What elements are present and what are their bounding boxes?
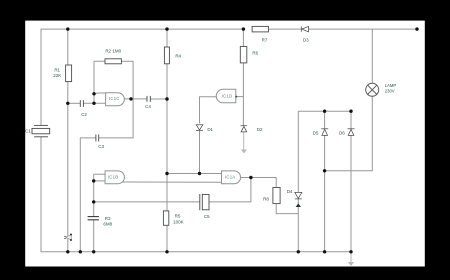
wire IC1A output to R8 xyxy=(241,178,277,188)
svg-text:C2: C2 xyxy=(81,112,87,117)
node C4 R4 junction xyxy=(165,97,168,100)
wire C2 row left xyxy=(68,102,81,104)
svg-text:D1: D1 xyxy=(207,127,213,132)
node top rail R1 xyxy=(66,27,69,30)
wire top rail right segment xyxy=(308,28,417,30)
svg-text:R7: R7 xyxy=(262,38,268,43)
node IC1D right xyxy=(235,96,237,98)
wire R3 column lower xyxy=(93,220,95,252)
white drawing page xyxy=(25,21,425,267)
svg-text:R4: R4 xyxy=(175,54,181,59)
svg-text:D2: D2 xyxy=(257,127,263,132)
wire R4-R5 column xyxy=(166,64,168,211)
wire bottom rail xyxy=(41,251,352,253)
svg-text:6M8: 6M8 xyxy=(103,222,112,227)
svg-text:IC1A: IC1A xyxy=(225,175,235,180)
svg-text:100K: 100K xyxy=(173,220,184,225)
wire D5 column upper xyxy=(324,111,326,129)
svg-text:R3: R3 xyxy=(105,216,111,221)
wire R2 left leg xyxy=(94,61,105,94)
wire top rail left segment xyxy=(41,28,243,30)
wire D6 column lower xyxy=(350,136,352,252)
svg-text:230V: 230V xyxy=(385,89,395,94)
node top rail R6 xyxy=(242,27,245,30)
svg-text:R2 1M0: R2 1M0 xyxy=(105,48,121,53)
resistor R5 xyxy=(163,211,168,225)
svg-text:IC1C: IC1C xyxy=(109,96,120,101)
svg-text:R6: R6 xyxy=(252,51,258,56)
wire IC1D input / D1 column xyxy=(200,97,217,123)
wire top rail R7-D3 segment xyxy=(268,28,301,30)
wire R1 column upper xyxy=(67,29,69,65)
svg-text:C1: C1 xyxy=(25,129,31,134)
wire R3 column upper xyxy=(93,181,95,217)
svg-text:D6: D6 xyxy=(339,131,345,136)
resistor R4 xyxy=(164,47,169,64)
wire R6 column to D2 xyxy=(242,63,244,126)
svg-text:LAMP: LAMP xyxy=(385,83,397,88)
wire C2 row right to gate xyxy=(83,102,105,104)
svg-text:C5: C5 xyxy=(204,214,210,219)
wire D4 column lower xyxy=(297,199,299,252)
node C5 R3 junction xyxy=(92,200,95,203)
node bottom rail R1 column xyxy=(66,250,69,253)
wire D4 column upper xyxy=(297,111,299,192)
wire R6 column top xyxy=(242,29,244,46)
svg-text:22K: 22K xyxy=(53,73,61,78)
svg-text:R5: R5 xyxy=(175,214,181,219)
capacitor C5 xyxy=(199,194,201,210)
svg-text:C3: C3 xyxy=(98,144,104,149)
nand gate IC1C xyxy=(106,93,125,106)
node IC1B inputs xyxy=(92,179,95,182)
node lamp D5 junction xyxy=(323,169,326,172)
wire IC1C input tie vertical xyxy=(93,94,95,104)
wire lamp column lower xyxy=(325,96,373,170)
wire D2 anode down to arrow xyxy=(243,132,245,150)
capacitor C3 xyxy=(95,134,97,141)
arrow below D2 xyxy=(241,150,247,154)
node bottom rail C3 column xyxy=(79,250,82,253)
wire IC1D right to R6 column xyxy=(236,96,244,98)
diode D1 xyxy=(196,125,203,130)
resistor R1 xyxy=(66,65,72,82)
nand gate IC1B xyxy=(105,171,124,184)
diode D4 xyxy=(295,192,302,198)
wire C4 right xyxy=(150,98,167,100)
node D6 anode xyxy=(349,110,352,113)
node IC1C output xyxy=(129,97,132,100)
wire R4 column top xyxy=(166,29,168,47)
node bottom rail R5 column xyxy=(165,250,168,253)
wire D5 D6 anode rail xyxy=(298,110,351,112)
node IC1A input D1 xyxy=(198,172,201,175)
diode D3 xyxy=(300,26,302,31)
wire D5 column lower xyxy=(324,136,326,252)
arrow into D4 cathode xyxy=(296,203,301,207)
node D5 anode xyxy=(323,110,326,113)
resistor R7 xyxy=(252,26,268,32)
wire C3 left to down column xyxy=(80,138,96,252)
resistor R8 xyxy=(273,188,280,204)
wire left rail lower xyxy=(40,137,42,253)
wire IC1B upper input xyxy=(94,174,106,181)
diode D2 xyxy=(241,125,247,127)
wire R2 right leg xyxy=(99,61,133,138)
svg-text:D3: D3 xyxy=(303,38,309,43)
wire ground stub xyxy=(350,252,352,262)
diode D6 xyxy=(348,128,355,130)
diode D5 xyxy=(321,128,328,130)
node IC1C upper input xyxy=(92,92,95,95)
wire R8 bottom jog xyxy=(276,204,298,214)
node bottom rail D5 column xyxy=(323,250,326,253)
capacitor C1 xyxy=(34,124,48,126)
wire C5 row right up to IC1A output xyxy=(209,178,251,202)
capacitor C2 xyxy=(79,100,81,107)
svg-text:R8: R8 xyxy=(263,196,269,201)
svg-text:C4: C4 xyxy=(145,104,151,109)
node top rail right end xyxy=(415,27,418,30)
wire IC1C upper input xyxy=(94,92,106,95)
wire IC1B lower input xyxy=(94,180,106,182)
lamp LAMP 230V xyxy=(366,83,379,96)
svg-text:D5: D5 xyxy=(313,131,319,136)
node bottom rail end xyxy=(349,250,352,253)
wire left rail upper xyxy=(40,29,42,126)
nand gate IC1A xyxy=(222,171,241,184)
wire D1 cathode down xyxy=(199,131,201,174)
resistor R2 xyxy=(105,59,121,64)
wire D6 column upper xyxy=(350,111,352,129)
node IC1C lower input xyxy=(92,102,95,105)
resistor R3 plates xyxy=(88,216,99,218)
node top rail R4 xyxy=(165,27,168,30)
ground arrow bottom right xyxy=(348,262,354,266)
wire R5 bottom xyxy=(166,225,168,252)
svg-text:D4: D4 xyxy=(287,189,293,194)
node IC1A output xyxy=(249,176,252,179)
node bottom rail R3 column xyxy=(92,250,95,253)
wire lamp column upper xyxy=(371,29,373,83)
nand gate IC1D (mirrored) xyxy=(216,89,236,103)
node IC1A input R4 column xyxy=(165,172,168,175)
connector symbol on R1 column xyxy=(64,234,72,241)
svg-text:IC1D: IC1D xyxy=(222,93,233,98)
node bottom rail D4 column xyxy=(297,250,300,253)
wire R1 column lower xyxy=(67,82,69,252)
wire IC1A upper input row xyxy=(167,173,222,175)
wire IC1C output to C4 xyxy=(124,98,147,100)
svg-text:IC1B: IC1B xyxy=(108,175,118,180)
resistor R6 xyxy=(240,47,247,63)
capacitor C4 xyxy=(146,96,148,102)
wire IC1B output to IC1A lower input xyxy=(123,181,222,183)
node C2 left xyxy=(66,102,69,105)
wire C5 row left xyxy=(94,201,200,203)
